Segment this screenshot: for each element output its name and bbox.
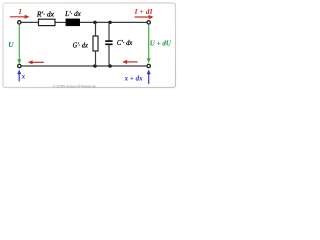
svg-text:x + dx: x + dx: [124, 74, 143, 82]
terminal bottom-right: [147, 64, 150, 67]
wire C branch upper: [108, 22, 110, 40]
capacitor C'dx plate top: [105, 40, 112, 42]
axis arrow x left: [17, 70, 21, 82]
terminal top-right: [147, 21, 150, 24]
wire bottom rail: [21, 65, 147, 67]
conductance G'dx: [93, 36, 98, 51]
return current arrow left: [28, 60, 44, 64]
svg-text:© 2009 www.LNTwww.de: © 2009 www.LNTwww.de: [53, 84, 97, 89]
resistor R'dx: [39, 19, 56, 25]
svg-text:U: U: [8, 40, 14, 49]
junction bottom C: [108, 64, 112, 68]
svg-text:U + dU: U + dU: [150, 40, 172, 48]
terminal bottom-left: [18, 64, 21, 67]
current arrow I: [10, 15, 30, 19]
svg-text:G′· dx: G′· dx: [73, 41, 89, 49]
voltage arrow U+dU right: [147, 25, 151, 63]
return current arrow right: [122, 60, 137, 64]
wire G branch upper: [95, 22, 97, 36]
wire C branch lower: [108, 45, 110, 66]
inductor L'dx: [66, 19, 80, 26]
wire top rail mid: [55, 21, 66, 23]
svg-text:x: x: [21, 72, 26, 80]
voltage arrow U left: [17, 25, 21, 64]
wire top rail: [21, 21, 39, 23]
junction top G: [93, 21, 97, 25]
junction top C: [108, 21, 112, 25]
wire top rail right: [80, 21, 148, 23]
axis arrow x+dx right: [147, 70, 151, 85]
junction bottom G: [93, 64, 97, 68]
capacitor C'dx plate bottom: [105, 43, 112, 45]
svg-text:I + dI: I + dI: [134, 8, 153, 16]
wire G branch lower: [95, 51, 97, 66]
current arrow I+dI: [135, 15, 154, 19]
svg-text:R′· dx: R′· dx: [36, 10, 55, 18]
svg-text:L′· dx: L′· dx: [64, 10, 82, 18]
frame border: [3, 3, 176, 88]
svg-text:C′· dx: C′· dx: [117, 39, 133, 47]
terminal top-left: [18, 21, 21, 24]
